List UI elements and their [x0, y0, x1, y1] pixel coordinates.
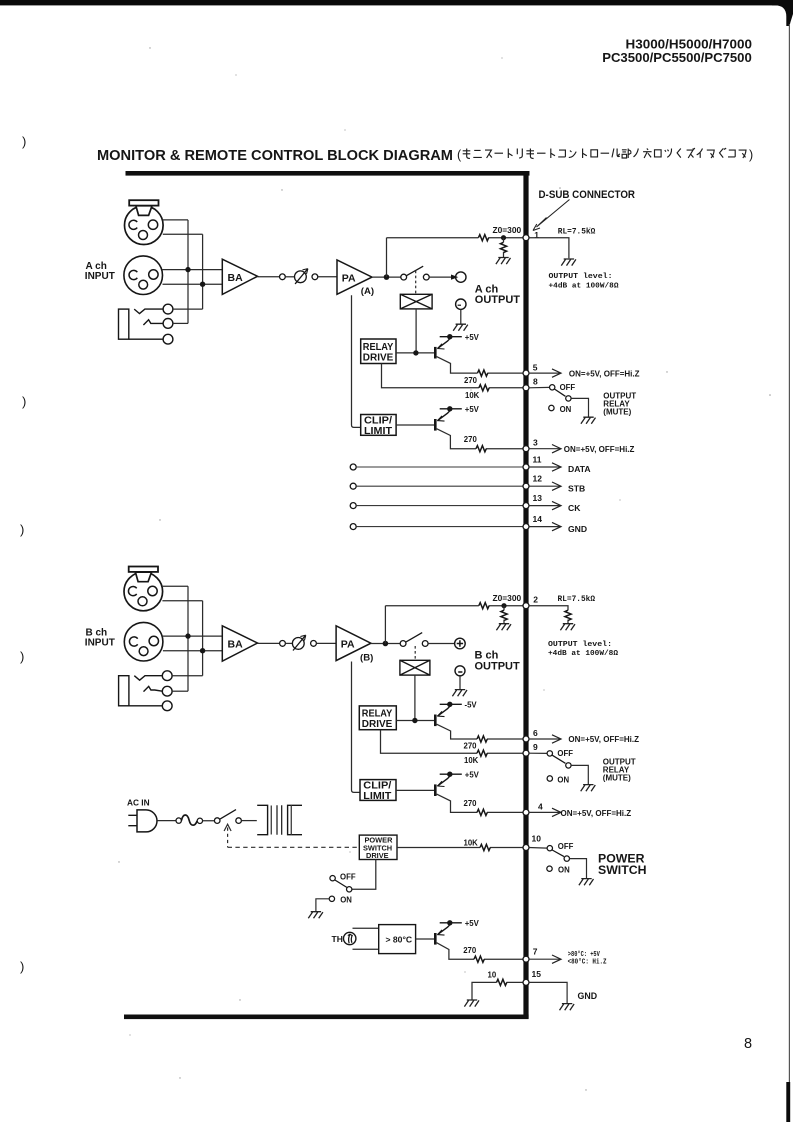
svg-text:10K: 10K — [465, 391, 480, 400]
svg-text:<80°C: Hi.Z: <80°C: Hi.Z — [568, 958, 607, 967]
wire: XLR B upper pin3 to vertical bus2 — [162, 600, 202, 602]
junction dot: PA A output node — [384, 274, 390, 280]
switch pole A mute — [566, 396, 571, 401]
D-SUB connector bus (thick vertical line) — [523, 171, 528, 1019]
wire: XLR A lower pin2 to BA input — [162, 269, 222, 271]
svg-text:8: 8 — [533, 377, 538, 387]
svg-text:+5V: +5V — [465, 405, 480, 414]
svg-text:5: 5 — [533, 362, 538, 372]
svg-text:GND: GND — [578, 991, 598, 1001]
terminal A+ (with arrow) — [456, 272, 466, 282]
arrow pin 6 — [529, 738, 561, 740]
switch pole power — [564, 856, 569, 861]
wire: PSD to pin 10 — [397, 847, 523, 849]
wire: PA A to clip/limit — [352, 295, 361, 427]
svg-text:DATA: DATA — [568, 464, 591, 474]
pin 4 — [523, 809, 529, 815]
connector J6: phone jack B — [119, 671, 173, 711]
svg-text:TH: TH — [332, 934, 343, 944]
power switch contact (AC side) — [214, 810, 241, 824]
wire — [285, 276, 294, 278]
svg-text:6: 6 — [533, 728, 538, 738]
scan artifact: top-right corner black wedge — [772, 0, 793, 26]
wire: jack B tip contact to bus2 — [172, 675, 203, 677]
wire: XLR B upper pin2 to vertical bus1 — [162, 585, 188, 587]
resistor 10K (pin 9) — [477, 750, 487, 756]
wire: relay drive A to Q1 base — [396, 352, 435, 354]
scan artifact: bottom-right edge black mark — [786, 1082, 790, 1122]
connector J1: XLR A upper (with latch) — [125, 200, 164, 244]
svg-text:ON: ON — [557, 775, 569, 784]
power amp PA (A) — [337, 260, 372, 294]
wire: pole to ground B mute — [571, 765, 588, 784]
wire: ON contact to ground — [316, 899, 329, 912]
svg-text:ON=+5V, OFF=Hi.Z: ON=+5V, OFF=Hi.Z — [569, 369, 640, 378]
wire: relay drive B 10K to pin 9 — [381, 730, 524, 754]
pin 5 — [523, 370, 529, 376]
wire: relay coil B to relay drive node — [414, 675, 416, 720]
ground (B Z0) — [496, 624, 511, 631]
ON contact B mute — [547, 776, 552, 781]
svg-text:12: 12 — [533, 474, 543, 484]
wire — [318, 276, 337, 278]
ON contact A mute — [549, 405, 554, 410]
wire: vertical bus2 A (x=202.6) — [202, 234, 204, 309]
svg-text:BA: BA — [228, 639, 244, 651]
wire: Q3 collector to pin 6 — [437, 724, 524, 739]
block: RELAY DRIVE A — [361, 339, 396, 364]
wire: clip/limit A to Q2 base — [396, 424, 435, 426]
wire: pin 8 to mute switch A — [529, 386, 550, 388]
wire: riser to Z0 line — [386, 238, 388, 277]
svg-text:ON=+5V, OFF=Hi.Z: ON=+5V, OFF=Hi.Z — [561, 809, 632, 818]
wire: pole to ground A mute — [571, 398, 588, 416]
svg-text:STB: STB — [568, 483, 585, 493]
wire: vertical bus2 B (x=202.6) — [202, 601, 204, 676]
switch: POWER SWITCH OFF contact — [547, 846, 552, 851]
pin 8 — [523, 385, 529, 391]
svg-text:ON: ON — [560, 405, 572, 414]
svg-text:> 80°C: > 80°C — [386, 934, 413, 944]
ground (A RL) — [561, 259, 576, 266]
svg-text:+5V: +5V — [465, 919, 480, 928]
wire: relay coil A to relay drive node — [415, 309, 417, 353]
wire: XLR B lower pin3 to BA input — [163, 650, 222, 652]
svg-text:10K: 10K — [464, 756, 479, 765]
svg-text:CK: CK — [568, 503, 581, 513]
svg-text:+4dB at 100W/8Ω: +4dB at 100W/8Ω — [548, 650, 618, 658]
dashed control link with arrowhead — [224, 824, 231, 831]
junction dot A2 — [200, 282, 205, 287]
svg-text:): ) — [22, 394, 26, 409]
resistor 270 (pin 7) — [474, 956, 484, 962]
svg-text:OUTPUT level:: OUTPUT level: — [549, 273, 613, 281]
block: CLIP/LIMIT B — [360, 780, 396, 801]
switch pole PSD local — [347, 887, 352, 892]
wire: switch to B output terminal — [428, 643, 454, 645]
svg-text:DRIVE: DRIVE — [366, 851, 389, 860]
resistor 270 (pin 5) — [478, 370, 488, 376]
wire — [285, 642, 292, 644]
wire: pin 10 to power switch — [529, 847, 548, 850]
junction dot A1 — [185, 267, 190, 272]
svg-text:10K: 10K — [464, 838, 479, 847]
wire: plug to fuse — [157, 820, 176, 822]
node circle B (after VR) — [311, 641, 317, 647]
svg-text:INPUT: INPUT — [85, 638, 115, 649]
scan artifact: right page-edge thin line — [789, 24, 790, 1122]
svg-text:D-SUB CONNECTOR: D-SUB CONNECTOR — [539, 189, 636, 201]
wire: switch to A output terminal — [429, 276, 454, 278]
svg-text:PA: PA — [341, 639, 355, 651]
wire: A output feed to pin 1 — [387, 237, 524, 239]
svg-text:ON: ON — [340, 896, 352, 905]
switch blade A mute — [555, 389, 566, 396]
ground (PSD local) — [308, 912, 323, 919]
transformer T1 — [257, 805, 302, 835]
svg-text:7: 7 — [533, 946, 538, 956]
connector J2: XLR A lower — [124, 256, 163, 295]
block: POWER SWITCH DRIVE — [359, 835, 397, 859]
wire: PA B out to mute switch — [371, 643, 400, 645]
svg-text:2: 2 — [533, 594, 538, 604]
switch: output relay A (OFF contact) — [550, 385, 555, 390]
wire: XLR A lower pin3 to BA input — [163, 283, 223, 285]
pin 6 — [523, 736, 529, 742]
svg-text:10: 10 — [532, 833, 542, 843]
svg-text:): ) — [20, 522, 24, 537]
svg-text:): ) — [22, 134, 26, 149]
resistor Z0=300 (A) — [478, 235, 488, 241]
scan artifact: top edge black bar — [0, 0, 793, 5]
junction dot B2 — [200, 648, 205, 653]
wire: box to Q5 base — [416, 938, 436, 940]
svg-text:OFF: OFF — [340, 872, 356, 881]
svg-text:(B): (B) — [360, 652, 373, 663]
terminal A- — [456, 299, 466, 309]
switch pole B mute — [566, 763, 571, 768]
relay coil A (box with X) — [400, 294, 432, 309]
svg-text:RELAY: RELAY — [362, 708, 393, 719]
ground (terminal B-) — [452, 690, 467, 697]
connector J4: XLR B upper (with latch) — [124, 567, 163, 611]
junction dot (coil/base node B) — [412, 718, 417, 723]
svg-text:+5V: +5V — [465, 333, 480, 342]
wire: pin 15 to GND — [529, 982, 568, 1003]
svg-text:MONITOR & REMOTE CONTROL BLOCK: MONITOR & REMOTE CONTROL BLOCK DIAGRAM — [97, 147, 453, 164]
resistor to ground (A Z0) — [500, 242, 506, 252]
wire: XLR B lower pin2 to BA input — [163, 635, 223, 637]
connector J3: phone jack A — [119, 304, 173, 344]
wire: riser to Z0 line B — [384, 606, 386, 644]
wire: vertical bus1 B (x=188) — [187, 586, 189, 691]
ground (B mute) — [581, 785, 596, 792]
block: >80C comparator — [379, 925, 416, 954]
svg-text:): ) — [20, 959, 24, 974]
ON contact power — [547, 866, 552, 871]
pin 15 — [523, 979, 529, 985]
wire: jack B ring contact to bus1 — [172, 690, 188, 692]
resistor 10K (pin 8) — [479, 385, 489, 391]
ground (B RL) — [560, 624, 575, 631]
svg-text:+4dB at 100W/8Ω: +4dB at 100W/8Ω — [549, 283, 619, 291]
svg-text:270: 270 — [464, 799, 478, 808]
block: RELAY DRIVE B — [359, 706, 396, 730]
wire: BA B out to node — [258, 642, 280, 644]
relay coil B (box with X) — [400, 660, 430, 675]
scan artifact: paper speckles — [118, 47, 771, 1090]
junction dot (coil/base node A) — [413, 350, 418, 355]
svg-text:8: 8 — [744, 1036, 752, 1052]
thermal switch TH — [344, 932, 356, 944]
svg-text:ON: ON — [558, 866, 570, 875]
arrow pin 7 — [529, 958, 561, 960]
ground (terminal A-) — [453, 324, 468, 331]
resistor 270 (pin 3) — [476, 446, 486, 452]
wire: BA out to node — [258, 276, 280, 278]
wire: relay drive A 10K to pin 8 — [382, 364, 524, 388]
wire: Q4 collector to pin 4 — [437, 794, 524, 812]
mute relay switch B (contact) — [400, 633, 428, 647]
wire: switch to transformer — [241, 820, 256, 822]
svg-text:RL=7.5kΩ: RL=7.5kΩ — [558, 228, 596, 237]
wire: clip/limit B to Q4 base — [396, 789, 435, 791]
svg-text:PC3500/PC5500/PC7500: PC3500/PC5500/PC7500 — [602, 50, 752, 65]
svg-text:+5V: +5V — [465, 770, 480, 779]
svg-text:GND: GND — [568, 524, 587, 534]
svg-text:): ) — [20, 649, 24, 664]
junction dot: PA B output node — [383, 641, 389, 647]
input wiring B — [162, 586, 222, 691]
pin 3 — [523, 446, 529, 452]
junction dot B1 — [185, 633, 190, 638]
svg-text:4: 4 — [538, 802, 543, 812]
svg-text:ON=+5V, OFF=Hi.Z: ON=+5V, OFF=Hi.Z — [568, 735, 639, 744]
ground (pin 15 right) — [560, 1004, 575, 1011]
svg-text:(MUTE): (MUTE) — [603, 407, 631, 416]
svg-text:OUTPUT: OUTPUT — [475, 661, 521, 673]
arrow pin 3 — [529, 448, 561, 450]
svg-text:AC IN: AC IN — [127, 798, 150, 808]
attenuator VR (B) — [292, 635, 305, 650]
buffer amp BA (B) — [222, 626, 257, 661]
ground (power switch) — [579, 879, 594, 886]
wire: pin 9 to mute switch B — [529, 752, 548, 754]
svg-text:OFF: OFF — [558, 842, 574, 851]
transistor Q4 (B clip, PNP to +5V) — [435, 772, 462, 797]
svg-text:270: 270 — [464, 435, 478, 444]
svg-text:Z0=300: Z0=300 — [493, 225, 522, 235]
svg-text:(A): (A) — [361, 286, 374, 297]
wire: PSD box down to local switch — [352, 860, 376, 890]
wire: XLR A upper pin3 to vertical bus2 — [163, 233, 203, 235]
ON contact PSD local — [329, 896, 334, 901]
D-SUB label pointer arrow — [533, 200, 570, 231]
svg-text:RELAY: RELAY — [363, 342, 394, 353]
terminal B- (circle with minus) — [455, 666, 465, 676]
svg-text:Z0=300: Z0=300 — [493, 593, 522, 603]
pin 14 row: GND — [350, 524, 356, 530]
svg-text:(MUTE): (MUTE) — [603, 774, 631, 783]
pin 10 — [523, 845, 529, 851]
switch: output relay B (OFF contact) — [547, 751, 552, 756]
frame: bottom thick border line — [124, 1015, 529, 1020]
AC plug — [128, 810, 157, 832]
block: CLIP/LIMIT A — [361, 415, 396, 436]
svg-text:10: 10 — [488, 971, 497, 980]
wire: PA B to clip/limit B — [352, 662, 361, 793]
svg-text:SWITCH: SWITCH — [598, 863, 647, 877]
svg-text:270: 270 — [464, 742, 478, 751]
arrow pin 4 — [529, 811, 561, 813]
svg-text:): ) — [749, 148, 753, 162]
svg-text:14: 14 — [533, 514, 543, 524]
resistor 10 (pin 15) — [497, 979, 507, 985]
wire: pole to ground power — [570, 859, 587, 879]
svg-text:13: 13 — [533, 493, 543, 503]
fuse F1 — [176, 815, 203, 825]
transistor Q3 (B relay, PNP to -5V) — [435, 702, 462, 727]
transistor Q1 (A relay, PNP to +5V) — [435, 334, 462, 359]
wires: TH to comparator box — [353, 928, 379, 949]
wire: Q5 collector to pin 7 — [437, 943, 524, 960]
attenuator VR (A) — [295, 269, 308, 284]
svg-text:OFF: OFF — [560, 383, 576, 392]
resistor Z0=300 (B) — [479, 603, 489, 609]
svg-text:9: 9 — [533, 742, 538, 752]
wire: terminal B- to ground — [459, 676, 461, 689]
junction dot on Z0 line — [501, 235, 506, 240]
resistor 10K (pin 10) — [480, 844, 490, 850]
svg-text:DRIVE: DRIVE — [363, 353, 394, 364]
wire: Q2 collector to pin 3 — [437, 429, 524, 449]
power amp PA (B) — [336, 626, 371, 661]
transistor Q2 (A clip, PNP to +5V) — [435, 406, 462, 431]
switch blade B mute — [552, 755, 565, 763]
svg-text:PA: PA — [342, 272, 356, 284]
junction dot on Z0 line B — [501, 603, 506, 608]
svg-text:ON=+5V, OFF=Hi.Z: ON=+5V, OFF=Hi.Z — [564, 445, 635, 454]
wire: jack A tip contact to bus2 — [173, 308, 203, 310]
ground (A mute) — [581, 417, 596, 424]
svg-text:15: 15 — [532, 969, 542, 979]
input wiring A — [162, 220, 222, 324]
wire: XLR A upper pin2 to vertical bus1 — [162, 219, 188, 221]
wire: B output feed to pin 2 — [385, 605, 523, 607]
svg-text:LIMIT: LIMIT — [363, 791, 391, 802]
wire — [316, 642, 336, 644]
wire: PA out to mute switch — [372, 276, 401, 278]
svg-text:LIMIT: LIMIT — [364, 426, 392, 437]
svg-text:-5V: -5V — [465, 701, 478, 710]
frame: top thick border line — [126, 171, 530, 176]
pin 13 row: CK — [350, 503, 356, 509]
svg-text:DRIVE: DRIVE — [362, 719, 393, 730]
svg-text:>80°C: +5V: >80°C: +5V — [568, 950, 601, 959]
svg-text:OFF: OFF — [557, 749, 573, 758]
pin 1 — [523, 235, 529, 241]
svg-text:RL=7.5kΩ: RL=7.5kΩ — [558, 595, 596, 604]
transistor Q5 (TH, PNP to +5V) — [435, 920, 462, 945]
switch: PSD local OFF contact — [330, 876, 335, 881]
wire: Q1 collector to pin 5 — [437, 357, 524, 374]
ground (A Z0) — [496, 258, 511, 265]
wire: pin1 to RL — [529, 238, 569, 259]
terminal B+ (circle with plus) — [455, 638, 466, 649]
mute relay switch A (contact) — [401, 266, 429, 280]
node circle A (after VR) — [312, 274, 318, 280]
dashed link: switch to relay coil A — [415, 271, 417, 295]
switch blade power — [552, 850, 564, 857]
ground (pin 15 left) — [464, 1000, 479, 1007]
node circle B (after BA) — [280, 641, 286, 647]
dashed link: switch to relay coil B — [414, 646, 416, 660]
svg-text:270: 270 — [463, 946, 477, 955]
svg-text:BA: BA — [228, 272, 244, 284]
wire: jack A ring contact to bus1 — [173, 322, 188, 324]
wire: pin2 to RL B — [529, 606, 568, 624]
svg-text:1: 1 — [534, 230, 539, 240]
switch blade PSD local — [335, 880, 347, 887]
svg-text:11: 11 — [533, 454, 542, 464]
pin 7 — [523, 956, 529, 962]
resistor 270 (pin 4) — [477, 809, 487, 815]
node circle A (after BA) — [280, 274, 286, 280]
wire: vertical bus1 A (x=188) — [187, 220, 189, 324]
svg-text:3: 3 — [533, 438, 538, 448]
wire: ground to resistor 10 — [472, 982, 523, 999]
wire — [203, 820, 215, 822]
wire: relay drive B to Q3 base — [396, 720, 435, 722]
arrow pin 5 — [529, 372, 561, 374]
pin 11 row: DATA — [350, 464, 356, 470]
resistor RL (B) — [565, 610, 571, 620]
connector J5: XLR B lower — [124, 622, 163, 661]
pin 2 — [523, 603, 529, 609]
wire: terminal A- to ground — [460, 309, 462, 323]
pin 9 — [523, 750, 529, 756]
svg-text:270: 270 — [464, 376, 478, 385]
resistor to ground (B Z0) — [501, 610, 507, 620]
pin 12 row: STB — [350, 483, 356, 489]
svg-text:OUTPUT level:: OUTPUT level: — [548, 641, 612, 649]
svg-text:OUTPUT: OUTPUT — [475, 294, 521, 306]
svg-text:INPUT: INPUT — [85, 271, 115, 282]
resistor 270 (pin 6) — [477, 736, 487, 742]
buffer amp BA (A) — [222, 259, 257, 294]
